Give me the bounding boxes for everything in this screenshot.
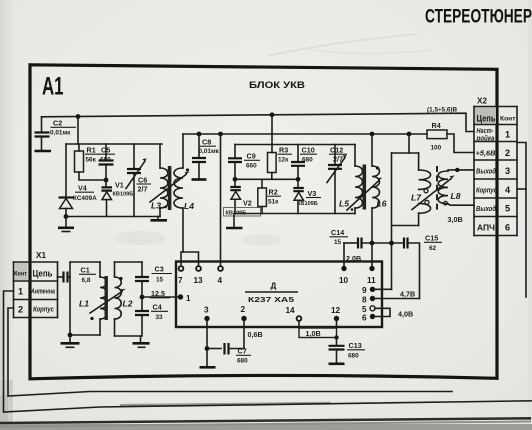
svg-text:2: 2: [18, 305, 23, 315]
svg-text:13: 13: [194, 276, 204, 285]
label C10: [300, 146, 317, 164]
IC designator label: [245, 282, 298, 305]
core L1 L2: [105, 276, 108, 320]
svg-text:0,6В: 0,6В: [248, 330, 263, 339]
svg-text:1,0В: 1,0В: [306, 329, 321, 338]
X1 connector table: [14, 262, 58, 318]
svg-text:БЛОК УКВ: БЛОК УКВ: [249, 80, 305, 91]
svg-text:Д: Д: [271, 282, 277, 291]
tank1 left wire: [65, 144, 67, 197]
X2 row 4 ground: [476, 185, 511, 195]
resistor R4: [427, 130, 474, 153]
svg-text:С4: С4: [153, 303, 162, 312]
inductor L2: [115, 262, 122, 336]
main frame A1 border: [30, 65, 497, 379]
label C3: [152, 265, 173, 284]
IC pin 3: [204, 306, 210, 349]
svg-text:АПЧ: АПЧ: [477, 224, 495, 233]
svg-text:А1: А1: [42, 73, 64, 101]
svg-text:V2: V2: [243, 199, 252, 208]
svg-text:С7: С7: [238, 347, 247, 356]
inductor L6: [370, 132, 380, 266]
svg-text:КВ109Б: КВ109Б: [297, 201, 318, 207]
svg-text:Конт: Конт: [500, 116, 516, 123]
L7 box top wire: [392, 152, 419, 154]
label C8: [199, 138, 220, 155]
svg-text:15: 15: [156, 277, 164, 284]
resistor R2: [258, 179, 267, 213]
capacitor C2: [35, 117, 50, 150]
capacitor C8: [192, 132, 207, 180]
wire bus2 to L7 box: [407, 132, 412, 153]
svg-text:С5: С5: [101, 146, 110, 155]
polarity dot L6: [376, 166, 379, 169]
X2 connector table: [474, 107, 517, 236]
inductor L8: [438, 171, 448, 205]
svg-text:С10: С10: [302, 146, 315, 155]
wire L8 bottom to X2 pin5: [448, 204, 474, 205]
inductor L1: [100, 262, 107, 335]
svg-text:R3: R3: [279, 146, 288, 155]
svg-text:С6: С6: [138, 176, 147, 185]
bus 2 +5.6V wire: [183, 133, 427, 135]
svg-text:1: 1: [186, 294, 191, 303]
svg-text:2: 2: [505, 148, 510, 158]
ground pin3: [200, 349, 216, 368]
label 4.0V: [398, 310, 413, 319]
label R4: [431, 121, 442, 152]
svg-text:660: 660: [246, 163, 257, 170]
IC pin 2: [241, 305, 247, 349]
IC pin 12: [331, 306, 341, 328]
svg-text:62: 62: [429, 245, 437, 252]
label L3: [151, 201, 167, 211]
label BLOK UKV: [249, 80, 305, 91]
varicap V2: [230, 179, 241, 213]
IC pin 4: [218, 266, 223, 285]
node tank1 bottom left: [64, 214, 69, 219]
X2 row 2 +5.6V: [476, 148, 511, 158]
svg-text:6: 6: [505, 223, 510, 233]
svg-text:3,0В: 3,0В: [448, 215, 463, 224]
label R1: [85, 146, 99, 164]
svg-text:0,01мк: 0,01мк: [199, 148, 220, 155]
svg-text:С8: С8: [202, 138, 211, 147]
svg-text:12,5: 12,5: [151, 289, 165, 298]
svg-text:6,8: 6,8: [82, 277, 91, 284]
ground tank1 right: [151, 217, 168, 221]
polarity dot L2: [119, 277, 122, 280]
svg-text:12: 12: [331, 306, 341, 315]
inductor L7: [419, 153, 431, 226]
svg-text:С15: С15: [425, 234, 438, 243]
svg-text:680: 680: [100, 157, 111, 164]
svg-text:Конт: Конт: [14, 271, 27, 278]
IC pin 5: [362, 305, 375, 314]
label A1: [42, 73, 64, 101]
label C4: [151, 303, 168, 322]
tank2 top wire: [235, 144, 355, 146]
wire X1 antenna external: [4, 291, 532, 412]
wire bus2 to pin4: [218, 132, 223, 266]
label L6: [377, 199, 387, 209]
svg-text:1: 1: [505, 130, 510, 140]
label 3.0V: [448, 215, 463, 224]
label C6: [137, 176, 152, 194]
label 4.7V: [400, 290, 415, 299]
varicap V1: [102, 180, 113, 217]
label V3: [297, 189, 321, 207]
svg-text:3: 3: [204, 306, 209, 315]
X1 row 2 ground: [18, 305, 54, 315]
svg-text:51к: 51к: [268, 198, 279, 205]
svg-text:L3: L3: [151, 201, 161, 211]
wire X1 ground external: [8, 308, 452, 396]
svg-text:R4: R4: [432, 121, 441, 130]
svg-text:L4: L4: [184, 201, 194, 211]
svg-text:ройка: ройка: [476, 134, 495, 143]
X2 header cells: [475, 108, 516, 124]
label L4: [184, 201, 194, 211]
capacitor C13: [329, 338, 345, 364]
svg-text:Х2: Х2: [477, 97, 487, 106]
IC pin 6: [362, 313, 375, 322]
tank1 top wire: [66, 143, 162, 145]
inductor L5: [355, 145, 363, 214]
svg-text:V1: V1: [115, 181, 124, 190]
capacitor C15: [404, 238, 408, 249]
capacitor C7: [205, 343, 244, 355]
svg-text:1: 1: [18, 287, 23, 297]
svg-text:33: 33: [156, 314, 164, 321]
svg-text:К237 ХА5: К237 ХА5: [248, 295, 294, 304]
capacitor C1: [58, 272, 71, 283]
IC D K237XA5 body: [176, 262, 382, 328]
svg-text:L2: L2: [123, 299, 133, 309]
svg-text:15: 15: [334, 239, 342, 246]
transformer arrow L1 L2: [90, 289, 126, 313]
IC pin 14: [286, 306, 302, 328]
IC pin 13: [194, 262, 204, 286]
transformer arrow L5 L6: [347, 178, 383, 211]
svg-text:4: 4: [218, 276, 223, 285]
svg-text:6: 6: [362, 313, 367, 322]
capacitor C3: [135, 262, 149, 297]
svg-text:56к: 56к: [86, 157, 97, 164]
svg-text:12к: 12к: [278, 156, 289, 163]
svg-text:СТЕРЕОТЮНЕР: СТЕРЕОТЮНЕР: [425, 7, 532, 28]
svg-text:(1,5÷5,6)В: (1,5÷5,6)В: [427, 107, 458, 114]
X2 row 6 AFC: [477, 223, 510, 233]
box 1.0V pins 14 12: [299, 328, 339, 340]
svg-text:Корпус: Корпус: [476, 186, 497, 195]
ground tank2: [226, 214, 243, 229]
inductor L4: [174, 134, 183, 252]
L7 box left wire: [391, 153, 393, 289]
core L3 L4: [168, 166, 172, 210]
svg-text:R2: R2: [269, 188, 278, 197]
svg-text:L8: L8: [451, 191, 461, 201]
label C9: [244, 152, 260, 170]
svg-text:L5: L5: [339, 199, 349, 209]
label L8: [451, 191, 461, 201]
tank2 bottom wire: [235, 213, 355, 215]
variable capacitor C6: [126, 144, 147, 217]
polarity dot L4: [186, 168, 189, 171]
svg-text:С13: С13: [349, 341, 362, 350]
IC pin 8: [362, 295, 420, 304]
scan crease marks: [114, 34, 430, 246]
svg-text:9: 9: [362, 286, 367, 295]
svg-text:Х1: Х1: [36, 251, 46, 260]
label 0.6V: [248, 330, 263, 339]
label tuning voltage: [427, 107, 458, 114]
svg-text:14: 14: [286, 306, 296, 315]
wire L8 to X2 pin3 with arrow: [448, 168, 474, 172]
ground L2: [133, 336, 150, 347]
transformer arrow L3 L4: [150, 172, 190, 202]
jumper pins 5 6: [375, 308, 390, 316]
svg-text:2/7: 2/7: [333, 155, 343, 164]
resistor R1: [75, 144, 107, 180]
svg-text:Антенна: Антенна: [30, 287, 55, 296]
capacitor C10: [291, 145, 305, 180]
svg-text:КВ109Б: КВ109Б: [113, 192, 134, 198]
capacitor C9: [228, 145, 242, 180]
svg-text:V3: V3: [308, 189, 317, 198]
L1 box wires: [70, 262, 100, 335]
X2 external wires right: [517, 143, 526, 298]
label R2: [268, 188, 282, 206]
svg-text:680: 680: [302, 156, 313, 163]
svg-text:С2: С2: [53, 119, 62, 128]
label X1: [36, 251, 46, 260]
svg-text:V4: V4: [78, 184, 87, 193]
tank1 bottom wire: [66, 216, 160, 218]
svg-text:11: 11: [367, 276, 376, 285]
label L7: [411, 193, 422, 203]
svg-text:Выход: Выход: [476, 204, 496, 213]
svg-text:4,0В: 4,0В: [398, 310, 413, 319]
resistor R3: [268, 153, 277, 180]
svg-text:С12: С12: [330, 146, 343, 155]
svg-text:L1: L1: [79, 299, 89, 309]
ground L1: [61, 333, 80, 348]
varicap V3: [293, 177, 304, 214]
label V4: [73, 184, 97, 203]
svg-text:L6: L6: [377, 199, 387, 209]
svg-text:Цепь: Цепь: [477, 114, 496, 124]
IC pin 1: [178, 294, 191, 303]
X2 row 1 tuning: [476, 126, 510, 143]
transformer arrow L7 L8: [412, 176, 455, 210]
svg-text:С14: С14: [331, 228, 344, 237]
svg-text:3: 3: [505, 166, 510, 176]
svg-text:100: 100: [431, 145, 442, 152]
svg-text:2/7: 2/7: [138, 185, 148, 194]
IC pin 11: [367, 266, 376, 285]
label L5: [339, 199, 353, 211]
label 12.5: [150, 289, 170, 298]
variable capacitor C12: [327, 145, 347, 214]
X2 row 5 output: [476, 204, 510, 214]
svg-text:Выход: Выход: [476, 167, 496, 176]
core L5 L6: [363, 165, 367, 210]
svg-text:С1: С1: [81, 266, 90, 275]
label 2.0V: [346, 254, 361, 263]
label V2: [224, 199, 261, 217]
page bottom edge band: [0, 418, 532, 430]
IC pin 10: [339, 243, 349, 285]
svg-text:5: 5: [505, 204, 510, 214]
label X2: [477, 97, 487, 106]
title STEREOTUNER: [425, 7, 532, 28]
svg-text:Цепь: Цепь: [33, 269, 53, 279]
X2 row 3 output: [476, 166, 510, 176]
label C7: [236, 347, 251, 365]
tank2 node wire: [233, 177, 298, 182]
core L7 L8 dashed: [436, 166, 438, 211]
ground C13: [329, 362, 345, 365]
svg-text:0,01мк: 0,01мк: [50, 130, 71, 137]
label C13: [347, 341, 365, 360]
svg-text:Корпус: Корпус: [33, 305, 54, 314]
svg-text:+5,6В: +5,6В: [476, 149, 497, 158]
L7 box bottom wire: [392, 225, 419, 227]
svg-text:С9: С9: [247, 152, 256, 161]
capacitor C5: [99, 144, 114, 180]
svg-text:680: 680: [237, 358, 248, 365]
wire C14 C15 bus: [344, 241, 420, 299]
label C5: [98, 146, 115, 164]
svg-text:R1: R1: [87, 146, 96, 155]
svg-text:4,7В: 4,7В: [400, 290, 415, 299]
label C14: [330, 228, 349, 246]
svg-text:8: 8: [362, 295, 367, 304]
node C3 C4 pin1: [140, 295, 178, 300]
bus 1 tuning voltage wire: [42, 113, 475, 131]
X1 row 1 antenna: [18, 287, 55, 297]
wire pins 7 13 loop: [181, 252, 199, 262]
svg-text:L7: L7: [411, 193, 422, 203]
IC pin 7: [178, 262, 183, 286]
inductor L3: [160, 144, 168, 217]
label L1: [79, 299, 94, 321]
node R1 C5 V1: [104, 178, 109, 183]
diode V4: [59, 198, 74, 217]
L2 box wires: [115, 262, 143, 336]
svg-text:2: 2: [241, 305, 246, 314]
svg-text:КС409А: КС409А: [73, 195, 97, 202]
svg-text:4: 4: [505, 185, 511, 195]
label L2: [123, 299, 133, 309]
label C15: [424, 234, 442, 253]
capacitor C4: [135, 297, 149, 336]
svg-text:7: 7: [178, 276, 183, 285]
node bus1 to tank2: [270, 112, 275, 152]
ground C2: [35, 150, 52, 153]
label C1: [79, 266, 96, 285]
svg-text:10: 10: [339, 276, 349, 285]
svg-text:С3: С3: [155, 265, 164, 274]
label R3: [278, 146, 293, 164]
label V1: [113, 181, 134, 198]
capacitor C14: [358, 238, 362, 249]
label C12: [329, 146, 347, 164]
ground tank1 left: [58, 217, 74, 232]
svg-text:680: 680: [348, 353, 359, 360]
node bus1 to tank1: [76, 114, 81, 144]
X1 header cells: [14, 263, 53, 280]
smudge on bottom wire: [120, 403, 330, 405]
IC pin 9: [362, 286, 392, 295]
label C2 value: [50, 119, 76, 137]
